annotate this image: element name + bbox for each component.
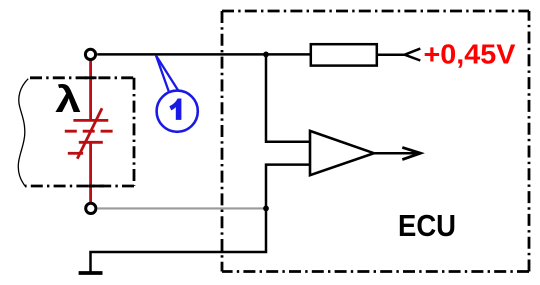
resistor (pull-up) — [311, 44, 377, 65]
terminal (bottom, sensor ground) — [86, 203, 96, 213]
svg-text:+0,45V: +0,45V — [424, 38, 516, 69]
callout balloon 1 — [156, 56, 198, 132]
svg-text:λ: λ — [55, 78, 81, 120]
wire (ground junction up to comparator - input) — [266, 165, 310, 209]
wire (comparator output) — [374, 152, 421, 155]
wire (resistor to supply arrow) — [377, 53, 405, 56]
wire (red, sensor top lead) — [89, 60, 92, 120]
arrow (+0,45V supply, pointing left) — [405, 49, 421, 61]
ground — [79, 271, 103, 275]
wire (signal junction to comparator + input) — [266, 54, 310, 141]
sensor element (variable galvanic cell) — [65, 108, 113, 159]
ECU enclosure box — [222, 11, 529, 272]
lambda sensor enclosure torn edge — [18, 79, 28, 187]
wire (ground, bottom terminal to junction, gray) — [97, 207, 266, 209]
svg-text:ECU: ECU — [398, 208, 456, 243]
wire crossing dash (sensor box top edge over red lead) — [85, 76, 97, 79]
arrow (comparator output head) — [402, 147, 420, 159]
wire (red, sensor bottom lead) — [89, 142, 92, 202]
wire (ground junction down to chassis ground) — [91, 208, 267, 271]
terminal (top, sensor signal output) — [85, 49, 95, 59]
lambda symbol — [55, 78, 81, 120]
wire crossing dash (sensor box bottom edge over red lead) — [89, 185, 105, 188]
node (ground junction) — [263, 206, 269, 212]
node (signal junction) — [263, 52, 269, 58]
lambda sensor enclosure box — [25, 78, 134, 186]
wire (signal, terminal to resistor) — [97, 53, 311, 56]
op-amp comparator — [310, 131, 374, 175]
